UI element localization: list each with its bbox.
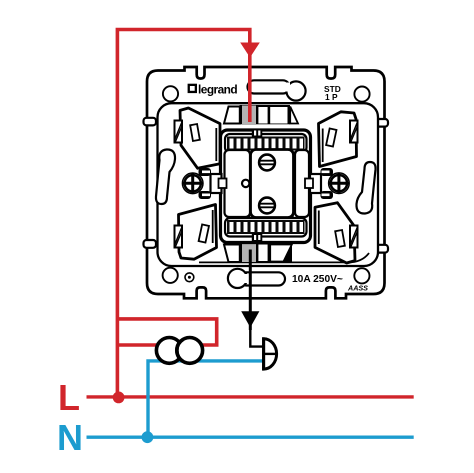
right edge key notch upper [376, 119, 389, 127]
left side flange [199, 168, 227, 199]
inner recess [158, 103, 379, 266]
bottom terminal zone dark field [240, 243, 293, 263]
left claw screw [182, 173, 203, 194]
top terminal trapezoid left [224, 107, 240, 124]
corner hole bottom-left [163, 268, 178, 283]
L junction dot [113, 392, 125, 404]
red branch wire to lamp circles [117, 319, 216, 345]
bottom keyhole slot [228, 269, 285, 288]
top terminal grey block [242, 106, 256, 125]
left inner block [225, 150, 251, 217]
right blob cutout [356, 162, 375, 214]
svg-text:AASS: AASS [347, 284, 368, 293]
claw upper-right [319, 112, 357, 167]
hatched slot lower-right [350, 226, 358, 248]
lamp circles symbol [156, 338, 182, 364]
upper slotted screw [259, 155, 275, 171]
mechanism outer block [221, 130, 311, 243]
right edge key notch lower [376, 245, 389, 253]
rivet circle bottom-left [185, 273, 194, 282]
svg-text:10A 250V~: 10A 250V~ [292, 274, 343, 285]
lower slotted screw [259, 198, 275, 214]
N junction dot [142, 431, 154, 443]
bottom terminal trapezoid left [224, 245, 240, 263]
top teeth band [225, 134, 307, 153]
hatched slot lower-left [175, 226, 183, 248]
corner hole top-right [354, 87, 369, 102]
claw upper-left slot [190, 124, 200, 141]
socket symbol [264, 337, 277, 370]
top keyhole slot [248, 80, 306, 100]
recess inner offset line [199, 253, 369, 262]
claw lower-left slot [199, 224, 209, 242]
corner hole top-left [163, 86, 178, 101]
pivot circle [242, 180, 249, 187]
red arrow into switch [240, 43, 260, 58]
red branch wire left segment [117, 343, 160, 347]
bottom terminal grey block [242, 244, 256, 263]
red wire top loop [117, 30, 249, 398]
bottom terminal white cells [258, 245, 267, 262]
left edge key notch lower [144, 240, 157, 248]
N line [87, 436, 414, 439]
corner hole bottom-right [354, 268, 369, 283]
hatched slot upper-right [350, 121, 358, 143]
blue wire from lamp to N [148, 361, 264, 437]
right side flange [305, 168, 333, 199]
claw inner edge lines [215, 128, 217, 161]
top terminal white cells [258, 107, 267, 124]
L line [87, 395, 414, 398]
claw lower-left [179, 205, 217, 260]
hatched slot upper-left [175, 121, 183, 143]
top terminal zone dark field [240, 105, 291, 124]
right inner block [295, 150, 309, 217]
right claw screw [329, 173, 350, 194]
central plate [251, 150, 294, 218]
svg-text:1 P: 1 P [325, 92, 338, 102]
svg-text:L: L [58, 377, 80, 418]
claw lower-right slot [335, 230, 345, 247]
black arrow [241, 311, 259, 327]
svg-text:N: N [57, 417, 83, 458]
black wire from switch [249, 250, 252, 331]
legrand logo square [188, 84, 197, 93]
claw upper-right slot [326, 128, 336, 146]
mounting plate outline [147, 67, 385, 298]
bottom teeth band [225, 218, 307, 237]
left edge key notch upper [144, 118, 157, 126]
claw upper-left [180, 108, 220, 168]
claw lower-right [315, 203, 355, 263]
svg-text:legrand: legrand [198, 83, 237, 97]
left blob cutout [156, 149, 175, 204]
